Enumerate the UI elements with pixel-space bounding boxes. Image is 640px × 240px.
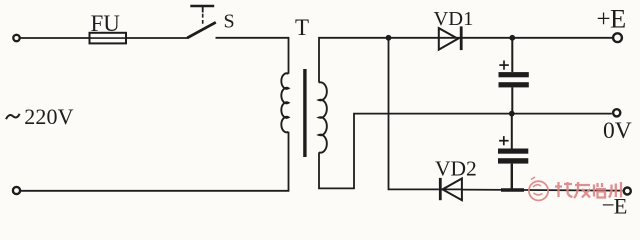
svg-text:0V: 0V [603, 118, 632, 144]
wire [21, 37, 90, 39]
capacitor C2 [498, 114, 528, 191]
wire [462, 190, 622, 191]
transformer core [303, 69, 306, 157]
node: junction at secondary top [386, 35, 392, 41]
wire (secondary top to VD2) [389, 38, 439, 190]
label ~220V [6, 114, 20, 119]
svg-text:E: E [610, 4, 626, 34]
wire [463, 37, 613, 39]
wire [126, 37, 188, 39]
node: junction 0V [509, 111, 515, 117]
node: junction C2 bottom [501, 188, 524, 191]
wire [319, 114, 612, 189]
transformer T secondary winding [319, 82, 327, 152]
switch S [187, 6, 216, 38]
terminal: AC input top-left [13, 35, 19, 41]
terminal: AC input bottom-left [13, 187, 20, 194]
terminal -E [624, 188, 631, 195]
diode VD1 [439, 26, 462, 50]
terminal +E [613, 33, 622, 42]
terminal 0V [613, 109, 620, 116]
svg-text:FU: FU [91, 11, 121, 36]
node: junction C1 top [509, 35, 515, 41]
svg-text:T: T [295, 15, 309, 40]
wire [216, 38, 289, 74]
svg-text:+: + [597, 6, 611, 33]
fuse FU [90, 33, 127, 44]
svg-text:VD1: VD1 [434, 8, 474, 30]
svg-text:VD2: VD2 [435, 156, 477, 180]
svg-text:S: S [224, 11, 235, 33]
capacitor C1 [499, 38, 529, 114]
wire [319, 38, 439, 83]
diode VD2 [440, 178, 462, 200]
watermark text 技成培训 (approximated strokes) [555, 182, 621, 198]
svg-text:220V: 220V [24, 104, 73, 129]
watermark logo circle [529, 177, 548, 200]
wire [21, 132, 289, 191]
transformer T primary winding [281, 73, 288, 132]
